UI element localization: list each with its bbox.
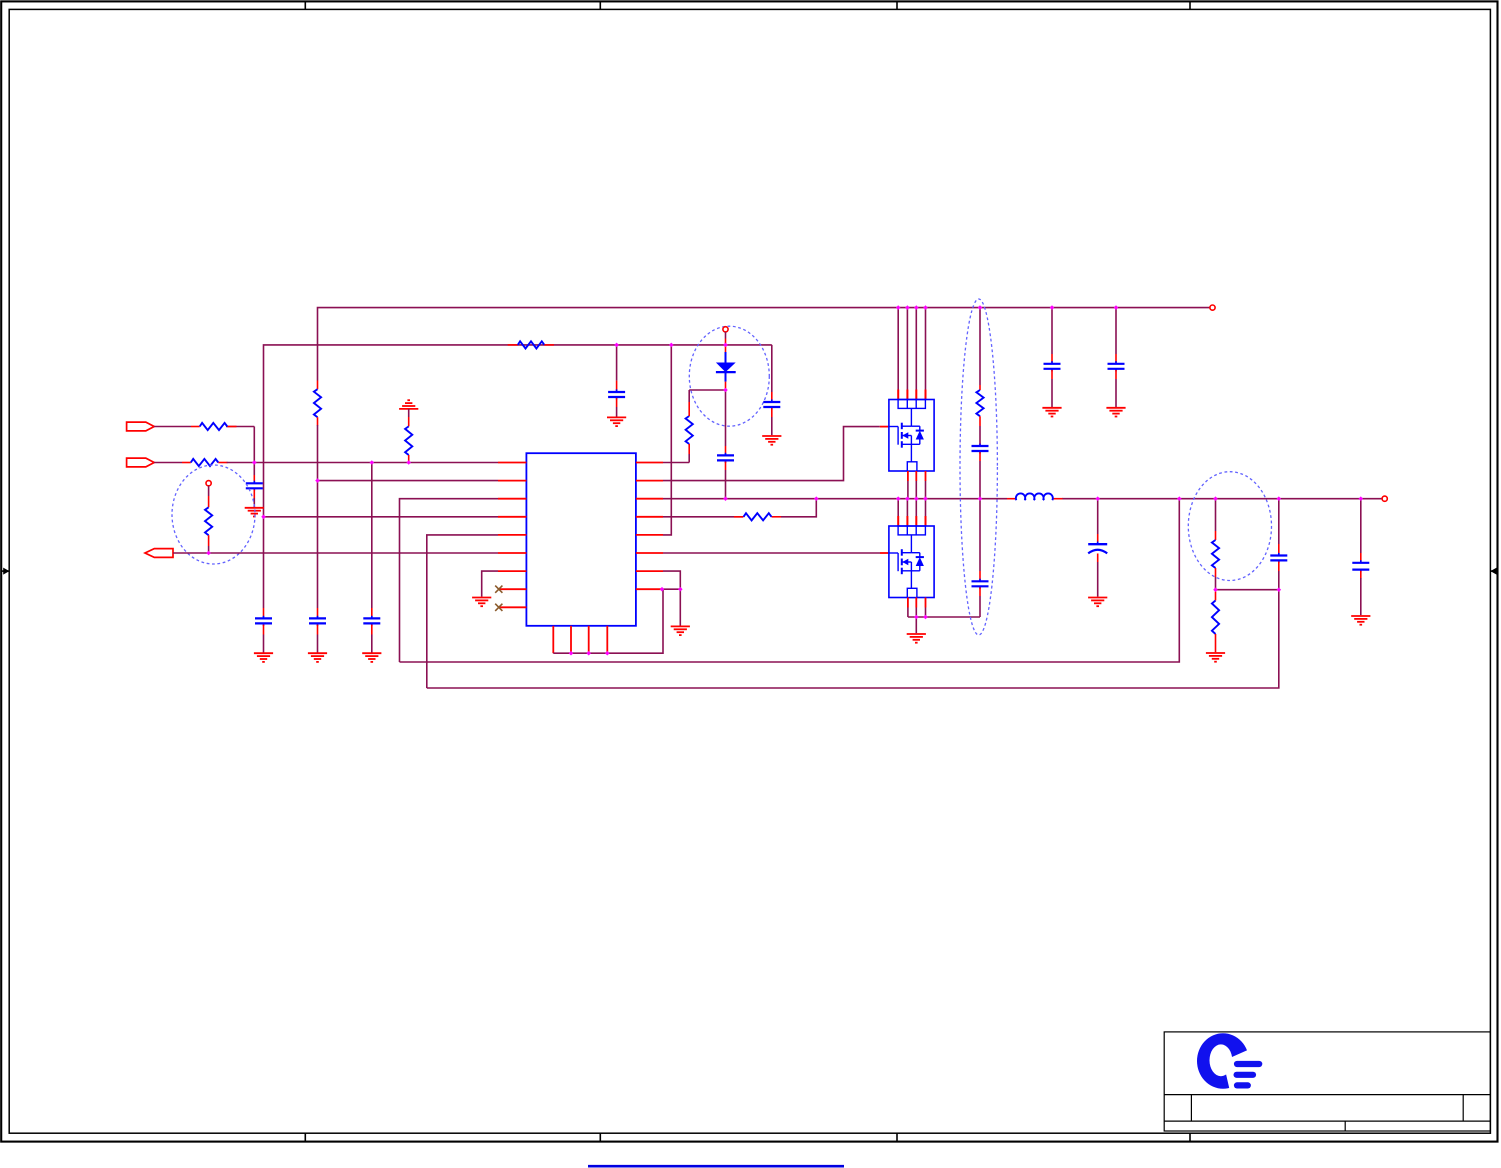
no-connect X pin L8 [495, 586, 502, 593]
wire pin L2 to x=318 [318, 480, 499, 482]
inverted ground at x=409 [399, 400, 418, 409]
capacitor C9 polarized at x=1098 [1088, 499, 1107, 597]
capacitor C11 at x=1361 [1352, 499, 1369, 616]
IC U1 right pin stubs [636, 463, 663, 590]
wire x=318 down [317, 425, 319, 608]
wire pin R5 up to rail [663, 345, 671, 535]
transistor Q1 [889, 400, 934, 472]
terminal circle T1 [206, 481, 211, 486]
company logo [1197, 1033, 1259, 1092]
terminal circle T3 [1210, 305, 1215, 310]
ground below C8 [1106, 408, 1125, 417]
IC U1 bottom pin stubs [553, 626, 607, 653]
wire pin L4 to x=263 [264, 516, 499, 518]
wire Q2 source bus [908, 617, 980, 633]
terminal circle T4 output [1382, 496, 1387, 501]
ground below C11 [1351, 616, 1370, 625]
right border mid arrow [1490, 568, 1497, 575]
dashed ellipse around D1 [689, 326, 769, 426]
wire pin L5 feedback down [427, 535, 498, 688]
resistor R3 on x=318 [314, 381, 321, 426]
wires Q1 source pins to SW node [908, 471, 926, 499]
inductor L1 [1016, 493, 1053, 500]
IC U1 left pin stubs [498, 463, 526, 608]
IC U1 body [526, 453, 636, 626]
wire VIN top rail y=308 [318, 308, 1213, 381]
resistor R6 at x=689 [686, 390, 693, 463]
wires SW node to Q2 drain pins [898, 499, 925, 526]
ground below C0 [254, 653, 273, 662]
resistor R7 in pin R4 row [744, 513, 772, 520]
port OUT flag [145, 549, 173, 558]
left border mid arrow [1, 568, 9, 575]
ground below pin R7 [671, 626, 690, 635]
wire pin R2 to M1 gate [663, 427, 889, 481]
ground below Q2 [907, 634, 926, 643]
dashed ellipse around Rfb top [1188, 472, 1271, 581]
capacitor C8 at x=1116 [1108, 308, 1125, 407]
wire OUT row y=553 to IC pin6 [173, 552, 498, 554]
dashed ellipse around snubber [960, 299, 997, 635]
ground below C6 [762, 436, 781, 445]
wire pin R7 to ground [663, 571, 680, 626]
capacitor Csnub2 [972, 499, 989, 617]
wires Q2 source pins down [908, 598, 926, 618]
wire IC bottom pins bus [553, 589, 663, 653]
capacitor C0 at x=264 [255, 608, 272, 653]
capacitor C7 at x=1052 [1044, 308, 1061, 407]
capacitor C1 at x=254 [246, 463, 263, 508]
no-connect X pin L9 [495, 604, 502, 611]
wire feedback1 x=1179 [400, 499, 1180, 662]
resistor Rsnub [976, 390, 983, 416]
ground below C1 [245, 508, 264, 517]
ground below C4 [607, 417, 626, 426]
port IN1 flag [127, 422, 155, 431]
capacitor C10 at x=1279 [1270, 499, 1287, 590]
transistor Q2 [889, 526, 934, 598]
title block [1164, 1032, 1490, 1131]
bottom partial blue line [588, 1165, 844, 1168]
wire pin R6g to M2 gate [663, 552, 889, 554]
terminal circle T2 [723, 327, 728, 332]
wire feedback2 x=1279 [427, 590, 1279, 688]
wire pin L3 feedback down [400, 499, 499, 662]
wire x=372 down [371, 463, 373, 609]
wire pin R4 through R7h [663, 499, 816, 517]
wire pin R8 row [663, 588, 680, 590]
dashed ellipse around Rsense1 [172, 465, 255, 564]
resistor R2 [191, 459, 219, 466]
wire diode node down [725, 390, 727, 446]
wire pin L7 to ground [482, 571, 498, 597]
wire output row y=499 [663, 498, 1384, 500]
resistor Rfb2 at x=1216 [1212, 592, 1219, 653]
wire rail end x=772 down [771, 345, 773, 392]
capacitor Csnub1 [972, 416, 989, 499]
wire rail to Rsnub [979, 308, 981, 390]
diode D1 [716, 345, 736, 390]
wire second rail y=345 [264, 345, 772, 608]
ground below C3 [362, 653, 381, 662]
ground below C2 [308, 653, 327, 662]
capacitor C6 at x=772 [763, 392, 780, 435]
bottom border zone ticks [305, 1133, 1190, 1141]
wire R6 top to diode node [689, 389, 725, 391]
top border zone ticks [305, 1, 1190, 9]
ground below C7 [1042, 408, 1061, 417]
wire inductor stubs [1007, 498, 1063, 500]
resistor R5 in rail y=345 [508, 341, 554, 348]
wire IN2 row y=462 to IC pin1 [154, 462, 498, 464]
ground below C9 [1088, 598, 1107, 607]
resistor Rsense1 branch [205, 486, 212, 553]
resistor R4 below ground [405, 409, 412, 463]
capacitor C2 at x=318 [309, 608, 326, 653]
capacitor C5 at x=726 [717, 446, 734, 499]
wire T2 to rail [725, 332, 727, 345]
capacitor C3 at x=372 [363, 608, 380, 653]
port IN2 flag [127, 458, 155, 467]
wire divider tap y=590 [1216, 589, 1279, 591]
wire IN1 to R1 [154, 427, 254, 463]
ground at IC pin L7 [472, 598, 491, 607]
wire pin R1 to resistor [663, 462, 689, 464]
resistor R1 [200, 423, 228, 430]
junction dots [206, 305, 1363, 655]
capacitor C4 at x=617 [608, 345, 625, 417]
wires rail to Q1 drain pins [898, 308, 925, 400]
ground below Rfb2 [1206, 653, 1225, 662]
resistor Rfb1 at x=1216 [1212, 499, 1219, 590]
